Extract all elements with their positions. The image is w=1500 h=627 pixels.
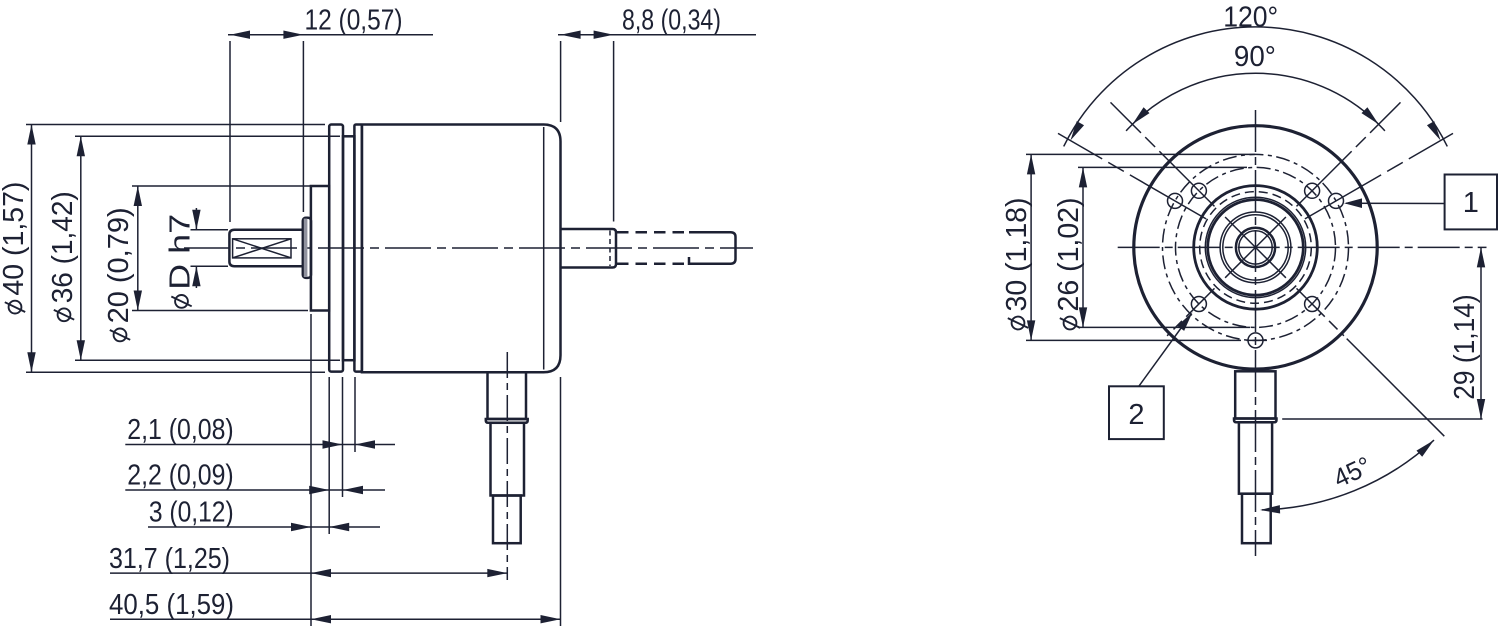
leader to box 1	[1346, 202, 1445, 204]
dim d36	[80, 136, 82, 360]
dim 12 (0,57)	[228, 34, 433, 36]
dim 2,2 (0,09)	[125, 489, 385, 491]
svg-text:D h7: D h7	[165, 214, 197, 290]
svg-text:40 (1,57): 40 (1,57)	[0, 182, 30, 296]
hole radial 315	[1297, 288, 1344, 335]
dim dD h7	[195, 208, 197, 230]
front connector flare	[1234, 419, 1277, 423]
rear shaft hidden edge	[609, 231, 611, 267]
connector section 3	[493, 496, 521, 544]
rear shaft end section	[689, 232, 736, 263]
hole 150	[1168, 193, 1183, 208]
main axis centerline	[184, 247, 753, 249]
hole 45	[1305, 183, 1320, 198]
45 deg ray	[1347, 339, 1445, 437]
dim 8,8 (0,34)	[558, 34, 756, 36]
shaft clamp X-box	[233, 239, 291, 258]
hole radial 150	[1058, 133, 1206, 219]
90 deg arc	[1126, 73, 1385, 131]
label box 1	[1445, 175, 1497, 230]
svg-text:2: 2	[1128, 399, 1144, 431]
svg-text:40,5 (1,59): 40,5 (1,59)	[109, 589, 234, 621]
hole radial 225	[1167, 288, 1214, 335]
rear shaft solid section	[561, 229, 617, 268]
connector section 2	[491, 423, 525, 496]
svg-text:2,1 (0,08): 2,1 (0,08)	[127, 414, 233, 446]
body	[362, 125, 561, 373]
hole 30	[1329, 193, 1344, 208]
connector flare	[486, 419, 528, 423]
shaft inner circle	[1239, 231, 1272, 264]
hub circle d20	[1194, 186, 1318, 310]
dim 31,7 (1,25)	[110, 572, 507, 574]
svg-text:26 (1,02): 26 (1,02)	[1053, 198, 1085, 312]
circle r35	[1220, 212, 1291, 283]
outer body circle d40	[1134, 126, 1377, 369]
120 deg arc	[1064, 27, 1448, 146]
bolt circle d30	[1163, 154, 1349, 340]
dim 40,5 (1,59)	[110, 618, 561, 620]
circle r33	[1223, 215, 1288, 280]
svg-text:31,7 (1,25): 31,7 (1,25)	[109, 543, 230, 575]
svg-text:29 (1,14): 29 (1,14)	[1449, 294, 1481, 400]
dim d26 bolt circle	[1082, 167, 1084, 327]
vertical centerline	[1255, 110, 1257, 556]
front connector section 2	[1239, 422, 1272, 493]
front connector section 3	[1242, 494, 1271, 544]
inner X diagonals	[1225, 217, 1286, 278]
svg-text:36 (1,42): 36 (1,42)	[47, 191, 79, 303]
bolt circle d26	[1176, 167, 1336, 327]
bottom extension lines	[310, 314, 312, 626]
connector section 1	[488, 372, 527, 419]
hole 270	[1248, 333, 1263, 348]
svg-text:20 (0,79): 20 (0,79)	[103, 207, 135, 323]
circle r48	[1208, 200, 1304, 296]
plate C	[354, 125, 362, 372]
svg-text:3 (0,12): 3 (0,12)	[149, 497, 234, 529]
front shaft	[229, 230, 303, 266]
shaft collar	[303, 218, 311, 278]
svg-text:2,2 (0,09): 2,2 (0,09)	[127, 460, 233, 492]
rear shaft dashed continuation bottom	[617, 262, 689, 265]
hole 225	[1191, 297, 1206, 312]
body-bottom connector centerline	[506, 352, 508, 580]
svg-text:45°: 45°	[1329, 450, 1376, 493]
shaft circle	[1236, 228, 1275, 267]
flange plate A (d40)	[329, 125, 343, 372]
hole 135	[1191, 183, 1206, 198]
svg-text:12 (0,57): 12 (0,57)	[305, 5, 403, 37]
hole radial 30	[1305, 133, 1453, 219]
hub (d20)	[311, 186, 329, 311]
leader to box 2	[1139, 315, 1191, 387]
rear shaft dashed continuation top	[617, 231, 689, 234]
shaft X cross	[233, 239, 291, 258]
dim 3 (0,12)	[148, 526, 380, 528]
svg-text:1: 1	[1463, 187, 1479, 219]
dim 29 (1,14)	[1480, 247, 1482, 419]
hole 270 h-tick	[1247, 339, 1268, 341]
45 deg arc	[1262, 440, 1434, 510]
spacer plate B (d36)	[343, 136, 354, 360]
svg-text:30 (1,18): 30 (1,18)	[1001, 198, 1033, 312]
dim 2,1 (0,08)	[125, 444, 395, 446]
dim d30 bolt circle	[1030, 154, 1032, 340]
svg-text:8,8 (0,34): 8,8 (0,34)	[622, 5, 721, 37]
dim d40	[31, 125, 33, 373]
collar gray band	[304, 219, 308, 277]
hidden circle d18	[1200, 192, 1312, 304]
label box 2	[1109, 386, 1164, 439]
horizontal centerline	[1118, 246, 1487, 248]
body rear seam line	[543, 127, 545, 370]
hole radial 45	[1297, 102, 1401, 206]
dim d20	[137, 186, 139, 311]
hole 315	[1305, 297, 1320, 312]
svg-text:90°: 90°	[1234, 41, 1276, 73]
hole radial 135	[1111, 102, 1215, 206]
circle r50	[1205, 197, 1305, 297]
front connector section 1	[1235, 371, 1275, 418]
svg-text:120°: 120°	[1223, 2, 1278, 34]
